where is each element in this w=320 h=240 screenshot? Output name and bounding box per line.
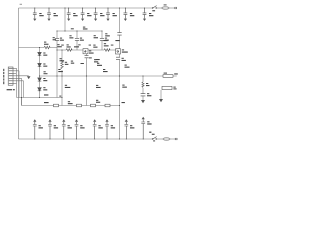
wire top +V rail (19, 7, 153, 9)
label R15 680 (68, 101, 73, 104)
label C15 100n (147, 93, 151, 96)
label above corner (20, 3, 22, 6)
fuse F1 top right (162, 7, 170, 10)
capacitor C21 bottom (105, 119, 109, 139)
capacitor C17 bottom (48, 119, 52, 139)
label C11 (94, 35, 98, 38)
wire connector pin stubs (12, 68, 28, 83)
label Q1 (89, 50, 94, 53)
diode D4 (38, 88, 42, 91)
wire speaker branch x161 (160, 90, 162, 99)
label OUT (174, 73, 178, 74)
label under S2 (153, 140, 155, 141)
zobel capacitor C15 (141, 94, 146, 96)
label R5 680 (67, 44, 71, 47)
capacitor under Q1 (85, 56, 89, 58)
capacitor C10 on x77 (75, 38, 79, 40)
label L1 (164, 73, 167, 74)
diode D2 (38, 63, 42, 66)
wire output line y76 (40, 75, 177, 77)
speck labels along y45 band (61, 44, 113, 45)
transistor Q1 box (83, 49, 88, 54)
capacitor C8 top right (143, 8, 147, 21)
capacitor C5 top (94, 8, 98, 21)
capacitor C3 top (67, 8, 71, 21)
label 0R22 mid (96, 59, 100, 60)
diode D1 (38, 52, 42, 55)
ground speaker (159, 99, 163, 102)
label C16 100n (39, 125, 43, 128)
label R20 10 (146, 83, 149, 86)
wire diode chain x39.5 (39, 48, 41, 98)
terminal +V top right (175, 7, 177, 9)
label R16 22k (96, 100, 100, 103)
label R7b 1k (60, 58, 65, 61)
label right of Q3 cap (122, 58, 126, 61)
label R11 0R22 (97, 63, 102, 66)
wire link x21.5 between lines (21, 98, 23, 106)
label R8 (94, 59, 98, 62)
label R2 above input line (44, 94, 48, 95)
wire column x77 (76, 31, 78, 50)
wire connector drop x16.5 (16, 68, 18, 97)
label S1 (152, 10, 155, 11)
capacitor C11 on x102 (100, 38, 104, 40)
label R3 above feedback line (44, 102, 49, 103)
label C6 100n (113, 13, 117, 16)
resistor R10 (104, 49, 110, 52)
label D1 (43, 53, 47, 56)
capacitor C4 top (81, 8, 85, 21)
wire zobel branch x143 (142, 76, 144, 100)
resistor R14 box (54, 104, 59, 107)
wire top-right fuse to terminal (169, 7, 174, 9)
speaker box LS (162, 86, 172, 89)
label C3 100n (73, 13, 77, 16)
switch S1 top right (152, 6, 156, 9)
wire connector drop x21.5 (21, 78, 23, 105)
ground at connector pin (27, 76, 31, 79)
label R13 1k (103, 69, 108, 72)
label C10 (69, 35, 73, 38)
wire left bias line y47.5 (19, 47, 58, 49)
transistor Q3 box (116, 49, 121, 54)
capacitor C7 top (124, 8, 128, 21)
label C23 10n (147, 121, 151, 124)
label C19 10u (80, 125, 84, 128)
zobel resistor R20 (142, 82, 144, 87)
wire column x57 lower (56, 50, 58, 98)
label R6 1k (65, 62, 69, 65)
label C21 100n (111, 125, 115, 128)
capacitor C16 bottom (33, 119, 37, 139)
wire column x86.5 (86, 54, 88, 106)
label C8 10n (149, 13, 153, 16)
label above y76 line (44, 71, 48, 74)
label C13 47u (58, 69, 63, 72)
label C1 100n (39, 13, 43, 16)
wire left vertical (18, 8, 20, 139)
wire top-right switch to fuse (157, 7, 162, 9)
label P1 vertical (3, 69, 4, 84)
fuse F2 bottom right (163, 138, 170, 141)
wire rail feed vertical x65 (64, 8, 66, 31)
capacitor C14 on x119.5 (117, 33, 121, 36)
resistor R16 box (91, 104, 96, 107)
label R4 10k (57, 44, 62, 47)
capacitor C20 bottom (93, 119, 97, 139)
label above y31 line left (71, 28, 74, 29)
label C18 100n (68, 125, 72, 128)
diode D3 (38, 78, 42, 81)
capacitor under Q3 (116, 57, 120, 59)
ground zobel (141, 100, 145, 103)
resistor R5 (66, 49, 72, 52)
label Q3 (122, 49, 128, 52)
label R17 4k7 (96, 85, 101, 88)
label D3 (43, 78, 47, 81)
wire bottom -V rail (19, 138, 153, 140)
wire output column x119.5 (119, 8, 121, 139)
label C20 10n (98, 125, 102, 128)
resistor R1 (44, 46, 50, 49)
label at end input line (59, 96, 61, 97)
label C13b 47u right of x62 (65, 85, 71, 88)
label C7 10u (130, 13, 134, 16)
wire distribution line y31 (57, 30, 102, 32)
wire bottom-right switch to fuse (157, 138, 163, 140)
resistor R6 vertical on x62 (61, 60, 64, 69)
wire feedback line y105.5 (22, 105, 120, 107)
label R9 (93, 45, 97, 48)
inductor L1 box on output (163, 75, 173, 78)
label CONN H (7, 89, 15, 90)
label C9 (53, 37, 56, 40)
label C5 10n (100, 13, 104, 16)
terminal -V bottom right (175, 138, 177, 140)
label S2 (152, 134, 155, 135)
label C12 (74, 46, 79, 47)
wire column x102 (101, 31, 103, 50)
capacitor C2 top (47, 8, 51, 21)
wire bottom-right fuse to terminal (170, 138, 175, 140)
resistor R19 box (105, 104, 110, 107)
label D2 (43, 64, 47, 67)
label C17 10u (54, 125, 58, 128)
label near y105 junction (122, 102, 125, 103)
node dots (21, 7, 145, 139)
capacitor C22 bottom (124, 119, 128, 139)
capacitor C9 on x57 (55, 38, 59, 40)
label R10 100 (104, 43, 109, 46)
label C14 100p (105, 33, 110, 36)
label R18 4k7 (122, 85, 127, 88)
label Q2 small (81, 63, 84, 64)
label right of Q1 cap (89, 57, 92, 58)
connector P1 (8, 67, 13, 85)
capacitor C1 top (33, 8, 37, 21)
resistor R15 box (77, 104, 82, 107)
wire column x62 (61, 50, 63, 106)
wire column x57 (56, 31, 58, 50)
label above y31 line right (83, 27, 88, 30)
label C22 10u (130, 125, 134, 128)
wire input line y97.5 (17, 97, 63, 99)
label R1 10k (44, 42, 49, 45)
label under C14 (103, 40, 119, 41)
label F1 (164, 4, 167, 5)
switch S2 bottom right (152, 137, 156, 140)
label C2 10u (54, 13, 58, 16)
label R12 0R22 (125, 65, 130, 68)
label -V near rail (149, 132, 151, 133)
label D4 (43, 87, 47, 90)
label R7 (71, 61, 74, 64)
capacitor C18 bottom (62, 119, 66, 139)
label LS (173, 87, 176, 90)
label C4 10u (87, 13, 91, 16)
capacitor C6 top (106, 8, 110, 21)
wire main line y50 (57, 49, 117, 51)
capacitor C23 bottom right (141, 117, 145, 139)
wire connector drop x19 (19, 71, 24, 98)
capacitor C19 bottom (75, 119, 79, 139)
